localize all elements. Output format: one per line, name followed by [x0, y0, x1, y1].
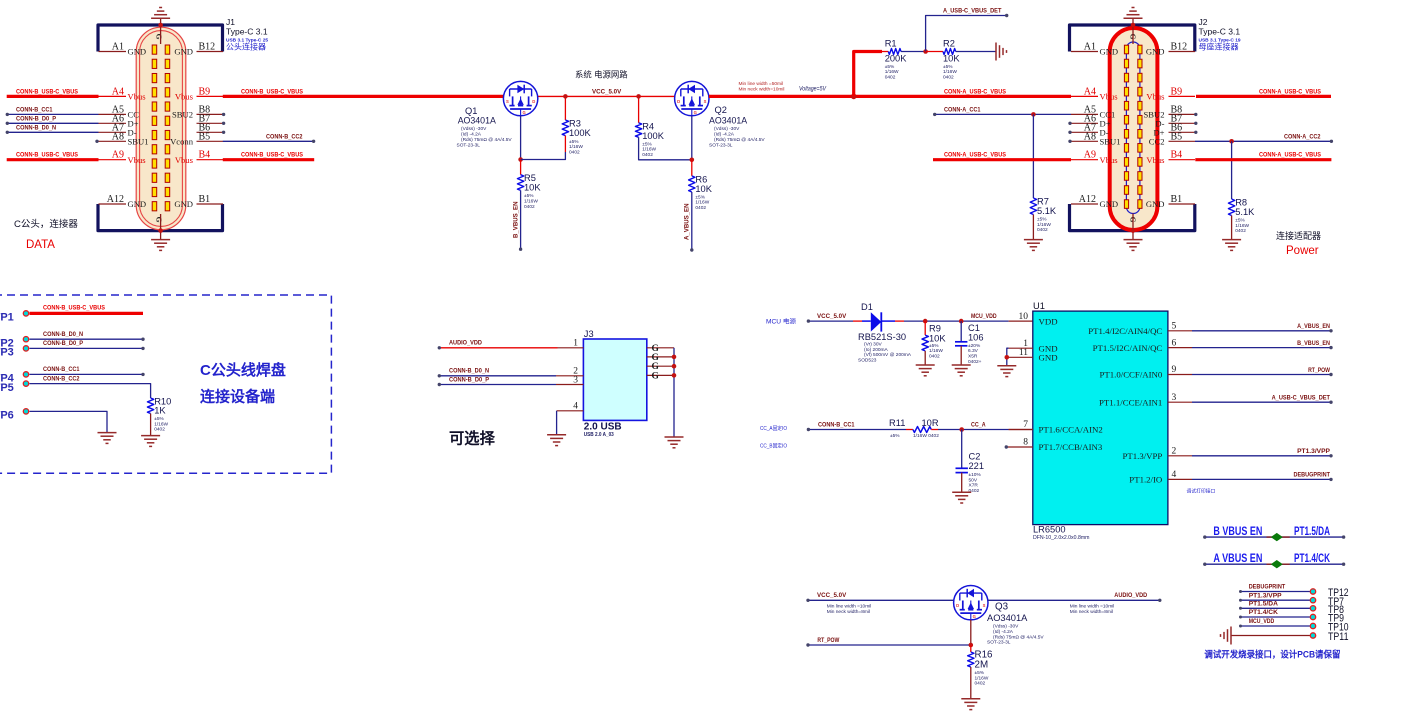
- wire TP2 CONN-B_D0_N: [30, 338, 144, 340]
- svg-text:J3: J3: [584, 329, 594, 339]
- junction Q2 gate node: [690, 158, 695, 163]
- svg-text:Voltage=5V: Voltage=5V: [799, 87, 827, 93]
- junction J3 G2: [672, 355, 677, 360]
- testpoint TP8: [1241, 607, 1311, 609]
- wire net RT_POW: [1192, 374, 1331, 376]
- svg-text:0402: 0402: [885, 74, 896, 80]
- svg-text:Vbus: Vbus: [128, 155, 147, 165]
- svg-text:AO3401A: AO3401A: [709, 116, 747, 126]
- svg-text:R1: R1: [885, 39, 897, 49]
- J2 pin A9: [1071, 159, 1098, 161]
- svg-text:(Id) -4.2A: (Id) -4.2A: [461, 132, 482, 138]
- svg-text:0402: 0402: [154, 427, 165, 433]
- svg-text:G: G: [694, 110, 697, 115]
- svg-text:R6: R6: [695, 174, 707, 184]
- svg-text:±5%: ±5%: [975, 670, 985, 676]
- svg-text:R3: R3: [569, 119, 581, 129]
- svg-text:PT1.5/DA: PT1.5/DA: [1294, 526, 1330, 538]
- wire net A_VBUS_EN: [691, 192, 693, 250]
- svg-text:USB 2.0 A_03: USB 2.0 A_03: [584, 432, 614, 438]
- wire net B_VBUS_EN: [520, 190, 522, 249]
- junction J1 bottom: [158, 228, 163, 233]
- svg-text:Vbus: Vbus: [1146, 92, 1165, 102]
- wire CONN-A_CC1: [935, 113, 1071, 115]
- svg-text:CONN-B_CC1: CONN-B_CC1: [16, 106, 53, 113]
- resistor R1: [888, 49, 901, 55]
- svg-text:R2: R2: [943, 39, 955, 49]
- wire TP3 CONN-B_D0_P: [30, 347, 144, 349]
- wire CONN-B_CC2: [223, 140, 314, 142]
- svg-text:R4: R4: [642, 121, 654, 131]
- wire A_USB-C_VBUS_DET: [926, 16, 1007, 52]
- U1 pin 6 PT1.5/I2C/AIN/QC: [1168, 347, 1192, 349]
- junction C1: [959, 319, 964, 324]
- svg-text:Min neck width=8mil: Min neck width=8mil: [827, 609, 870, 615]
- svg-text:SOD523: SOD523: [858, 358, 877, 364]
- svg-text:GND: GND: [128, 199, 147, 209]
- wire CONN-A_USB-C_VBUS A9: [933, 158, 1071, 161]
- transistor Q2: [675, 81, 709, 115]
- svg-text:Q3: Q3: [995, 602, 1009, 613]
- svg-text:A1: A1: [112, 42, 124, 53]
- svg-text:RB521S-30: RB521S-30: [858, 332, 906, 342]
- svg-text:A VBUS EN: A VBUS EN: [1213, 553, 1262, 565]
- U1 pin 11 GND: [1009, 356, 1033, 358]
- svg-text:CONN-A_CC2: CONN-A_CC2: [1284, 133, 1321, 140]
- svg-text:B_VBUS_EN: B_VBUS_EN: [513, 201, 520, 238]
- svg-text:±5%: ±5%: [1235, 218, 1245, 224]
- junction R9: [923, 319, 928, 324]
- wire join B_VBUS_EN PT1.5/DA: [1205, 536, 1344, 538]
- svg-text:TP6: TP6: [0, 410, 14, 422]
- transistor Q1: [503, 81, 537, 115]
- capacitor C2 lead: [961, 430, 963, 469]
- junction J1 top: [158, 23, 163, 28]
- wire VCC_5.0V to D1: [808, 320, 853, 322]
- svg-text:0402: 0402: [524, 204, 535, 210]
- junction J3 G3: [672, 364, 677, 369]
- svg-text:J1: J1: [226, 17, 235, 27]
- svg-text:GND: GND: [174, 47, 193, 57]
- svg-text:2.0 USB: 2.0 USB: [584, 422, 622, 433]
- svg-text:1/16W: 1/16W: [642, 147, 656, 153]
- wire RT_POW: [808, 644, 971, 646]
- wire J3 G bus down: [673, 348, 675, 437]
- U1 pin 4 PT1.2/IO: [1168, 478, 1192, 480]
- diode D1: [862, 320, 871, 322]
- svg-text:(Id) -4.2A: (Id) -4.2A: [714, 132, 735, 138]
- svg-text:RT_POW: RT_POW: [817, 637, 839, 644]
- svg-text:5.1K: 5.1K: [1235, 207, 1255, 217]
- testpoint TP11: [1231, 635, 1310, 637]
- svg-text:±5%: ±5%: [154, 416, 164, 422]
- J1 pin A4: [99, 95, 127, 97]
- resistor R4 top lead: [638, 96, 640, 122]
- J1 pin A8: [99, 140, 127, 142]
- svg-text:DEBUGPRINT: DEBUGPRINT: [1249, 584, 1286, 591]
- svg-text:±5%: ±5%: [929, 343, 939, 349]
- svg-text:C公头线焊盘: C公头线焊盘: [200, 361, 286, 379]
- svg-text:D: D: [956, 603, 959, 608]
- svg-text:±5%: ±5%: [943, 64, 953, 70]
- svg-text:GND: GND: [1100, 47, 1119, 57]
- svg-text:PT1.4/I2C/AIN4/QC: PT1.4/I2C/AIN4/QC: [1088, 326, 1162, 336]
- ground TP6: [98, 432, 117, 434]
- svg-text:DATA: DATA: [26, 239, 55, 251]
- svg-text:A_USB-C_VBUS_DET: A_USB-C_VBUS_DET: [1272, 395, 1331, 402]
- junction VCC R3: [563, 94, 568, 99]
- svg-text:B12: B12: [199, 42, 216, 53]
- svg-text:X7R: X7R: [969, 483, 979, 489]
- ground J2 top: [1124, 17, 1143, 19]
- svg-text:1/16W 0402: 1/16W 0402: [913, 433, 939, 439]
- svg-text:CC_A: CC_A: [971, 421, 986, 428]
- svg-text:A12: A12: [1079, 194, 1096, 205]
- wire J1 top ground: [160, 18, 162, 44]
- testpoint TP1: [23, 311, 28, 316]
- wire R11 to CC_A: [938, 429, 1009, 431]
- svg-text:CONN-A_USB-C_VBUS: CONN-A_USB-C_VBUS: [944, 152, 1006, 159]
- wire CONN-A_USB-C_VBUS B9 right: [1196, 95, 1331, 98]
- U1 pin 1 GND: [1009, 347, 1033, 349]
- wire J2 bottom ground: [1132, 214, 1134, 241]
- J1 pin B7: [197, 122, 224, 124]
- svg-text:1/16W: 1/16W: [569, 144, 583, 150]
- svg-text:CONN-B_D0_N: CONN-B_D0_N: [43, 331, 83, 338]
- capacitor C2: [956, 467, 968, 469]
- J2 pin A6: [1071, 122, 1098, 124]
- J2 unconnected pin dots: [1068, 122, 1071, 125]
- svg-text:J2: J2: [1199, 17, 1208, 27]
- svg-text:4: 4: [573, 402, 578, 412]
- ground U1: [997, 365, 1016, 367]
- svg-text:Vbus: Vbus: [1100, 92, 1119, 102]
- resistor R10: [147, 398, 153, 414]
- svg-text:0402: 0402: [929, 354, 940, 360]
- wire CONN-A_CC2: [1195, 140, 1331, 142]
- svg-text:DEBUGPRINT: DEBUGPRINT: [1294, 472, 1331, 479]
- ground TP11 rotated: [1230, 627, 1232, 645]
- U1 pin 9 PT1.0/CCF/AIN0: [1168, 374, 1192, 376]
- resistor R7: [1030, 198, 1036, 215]
- svg-text:PT1.5/DA: PT1.5/DA: [1249, 601, 1278, 608]
- svg-text:A4: A4: [1084, 86, 1096, 97]
- svg-text:AO3401A: AO3401A: [987, 613, 1028, 623]
- svg-text:Q1: Q1: [465, 106, 477, 116]
- dashed box C-plug pads: [0, 295, 331, 473]
- ground C2: [952, 491, 971, 493]
- svg-text:A_VBUS_EN: A_VBUS_EN: [684, 203, 691, 240]
- junction Q1 gate node: [518, 157, 523, 162]
- svg-text:连接设备端: 连接设备端: [200, 388, 275, 406]
- U1 pin 7 CCA: [1009, 429, 1033, 431]
- wire CC2 down to R8: [1231, 141, 1233, 199]
- junction Q3 gate R16: [969, 643, 974, 648]
- svg-text:GND: GND: [174, 199, 193, 209]
- svg-text:VCC_5.0V: VCC_5.0V: [817, 592, 847, 599]
- IC U1 body: [1033, 311, 1168, 524]
- svg-text:AO3401A: AO3401A: [458, 116, 496, 126]
- svg-text:U1: U1: [1033, 301, 1045, 311]
- svg-text:CC_A固定IO: CC_A固定IO: [760, 425, 787, 432]
- svg-text:PT1.3/VPP: PT1.3/VPP: [1249, 592, 1282, 599]
- svg-text:B VBUS EN: B VBUS EN: [1213, 526, 1262, 538]
- wire Q2 gate down: [691, 116, 693, 160]
- svg-text:(Vf) 500mV @ 200mA: (Vf) 500mV @ 200mA: [864, 352, 912, 358]
- svg-text:Min neck width=10mil: Min neck width=10mil: [739, 86, 785, 92]
- U1 pin 8 CCB: [1007, 446, 1033, 448]
- svg-text:CONN-B_CC1: CONN-B_CC1: [43, 366, 80, 373]
- resistor R5 top lead: [520, 160, 522, 175]
- svg-text:6: 6: [1172, 338, 1177, 348]
- junction CC2 R8: [1229, 139, 1234, 144]
- svg-text:Type-C 3.1: Type-C 3.1: [1199, 27, 1241, 37]
- svg-text:CONN-B_CC2: CONN-B_CC2: [266, 133, 303, 140]
- svg-text:C2: C2: [969, 451, 981, 461]
- svg-text:(Id) -4.2A: (Id) -4.2A: [993, 629, 1014, 635]
- J2 pin A12: [1071, 203, 1098, 205]
- J2 pin B8: [1169, 113, 1196, 115]
- J1 pin B9: [197, 95, 224, 97]
- svg-text:A12: A12: [107, 194, 124, 205]
- wire Q3 to AUDIO_VDD: [988, 599, 1160, 601]
- svg-text:DFN-10_2.0x2.0x0.8mm: DFN-10_2.0x2.0x0.8mm: [1033, 535, 1090, 541]
- svg-text:A_VBUS_EN: A_VBUS_EN: [1297, 323, 1330, 330]
- svg-text:1/16W: 1/16W: [154, 421, 168, 427]
- svg-text:G: G: [522, 110, 525, 115]
- connector J1 body: [136, 27, 186, 230]
- svg-text:调试开发烧录接口，设计PCB请保留: 调试开发烧录接口，设计PCB请保留: [1204, 649, 1340, 660]
- svg-text:MCU_VDD: MCU_VDD: [971, 313, 997, 320]
- svg-text:CONN-A_USB-C_VBUS: CONN-A_USB-C_VBUS: [944, 88, 1006, 95]
- svg-text:PT1.3/VPP: PT1.3/VPP: [1122, 451, 1162, 461]
- svg-text:C1: C1: [968, 323, 980, 333]
- resistor R8: [1228, 199, 1234, 216]
- J1 pin B8: [197, 113, 224, 115]
- J1 pin A12: [99, 203, 127, 205]
- svg-text:1/16W: 1/16W: [975, 675, 989, 681]
- svg-text:CONN-B_D0_P: CONN-B_D0_P: [43, 340, 83, 347]
- wire J2 top ground: [1132, 18, 1134, 44]
- svg-text:R11: R11: [889, 418, 905, 428]
- svg-text:0402: 0402: [695, 205, 706, 211]
- svg-text:Vbus: Vbus: [128, 92, 147, 102]
- svg-text:母座连接器: 母座连接器: [1199, 42, 1239, 52]
- resistor R11: [913, 427, 931, 433]
- J1 pin A7: [99, 131, 127, 133]
- svg-text:±10%: ±10%: [969, 472, 982, 478]
- svg-text:连接适配器: 连接适配器: [1276, 230, 1321, 241]
- svg-text:1/16W: 1/16W: [1235, 223, 1249, 229]
- svg-text:可选择: 可选择: [449, 430, 496, 448]
- J2 pin B12: [1169, 51, 1196, 53]
- svg-text:B4: B4: [1171, 150, 1183, 161]
- wire CONN-B_USB-C_VBUS B9 to Q1: [223, 95, 504, 98]
- svg-text:106: 106: [968, 333, 984, 343]
- svg-text:R7: R7: [1037, 197, 1049, 207]
- svg-text:A1: A1: [1084, 42, 1096, 53]
- J3 G pins: [647, 347, 674, 349]
- J2 pin B6: [1169, 131, 1196, 133]
- svg-text:Vbus: Vbus: [1146, 155, 1165, 165]
- U1 pin 2 PT1.3/VPP: [1168, 455, 1192, 457]
- svg-text:S: S: [506, 99, 509, 104]
- J2 pin A7: [1071, 131, 1098, 133]
- svg-text:Q2: Q2: [715, 105, 727, 115]
- connector J2 pads: [1124, 45, 1128, 54]
- svg-text:Min neck width=8mil: Min neck width=8mil: [1070, 609, 1113, 615]
- J1 pin A5: [99, 113, 127, 115]
- svg-text:±5%: ±5%: [1037, 217, 1047, 223]
- svg-text:0402: 0402: [975, 681, 986, 687]
- svg-text:B9: B9: [1171, 86, 1183, 97]
- svg-text:TP11: TP11: [1328, 631, 1349, 643]
- svg-text:SOT-23-3L: SOT-23-3L: [709, 142, 733, 148]
- svg-text:MCU_VDD: MCU_VDD: [1249, 618, 1275, 625]
- svg-text:±5%: ±5%: [885, 64, 895, 70]
- J1 pin A1: [99, 51, 127, 53]
- svg-text:AUDIO_VDD: AUDIO_VDD: [1114, 592, 1147, 599]
- ground R9: [916, 364, 935, 366]
- svg-text:Vbus: Vbus: [175, 92, 194, 102]
- svg-text:(Io) 200mA: (Io) 200mA: [864, 347, 889, 353]
- svg-text:4: 4: [1172, 470, 1177, 480]
- wire CONN-B_USB-C_VBUS A4: [7, 95, 99, 98]
- connector J2 bracket: [1070, 25, 1195, 52]
- svg-text:X5R: X5R: [968, 354, 978, 360]
- svg-text:TP3: TP3: [0, 347, 14, 359]
- svg-text:CONN-B_D0_P: CONN-B_D0_P: [16, 115, 56, 122]
- svg-text:10K: 10K: [524, 183, 541, 193]
- svg-text:1/16W: 1/16W: [524, 199, 538, 205]
- svg-text:2M: 2M: [975, 660, 989, 671]
- svg-text:Vbus: Vbus: [1100, 155, 1119, 165]
- svg-text:B12: B12: [1171, 42, 1188, 53]
- resistor R6: [689, 176, 695, 192]
- resistor R5: [517, 175, 523, 191]
- svg-text:SBU1: SBU1: [128, 137, 149, 147]
- svg-text:B5: B5: [1171, 131, 1183, 142]
- resistor R11 lead right: [931, 429, 938, 431]
- svg-text:A9: A9: [112, 150, 124, 161]
- wire net PT1.3/VPP: [1192, 455, 1331, 457]
- transistor Q3: [954, 586, 988, 620]
- resistor R3: [562, 120, 568, 136]
- junction J3 G4: [672, 373, 677, 378]
- svg-text:Vbus: Vbus: [175, 155, 194, 165]
- net tie B_VBUS_EN: [1271, 533, 1283, 541]
- svg-text:GND: GND: [128, 47, 147, 57]
- testpoint TP3: [23, 346, 28, 351]
- testpoint TP7: [1241, 599, 1311, 601]
- ground R2 rotated: [995, 43, 997, 61]
- J3 pin 2 wire CONN-B_D0_N: [439, 375, 556, 377]
- svg-text:GND: GND: [1100, 199, 1119, 209]
- junction R1 R2: [923, 49, 928, 54]
- svg-text:Min line width =10mil: Min line width =10mil: [1070, 604, 1115, 610]
- svg-text:100K: 100K: [642, 131, 665, 141]
- wire CONN-B_USB-C_VBUS B4: [223, 158, 314, 161]
- svg-text:221: 221: [969, 461, 985, 471]
- wire J1 bottom ground: [160, 214, 162, 240]
- wire D1 to U1 VDD: [895, 320, 904, 322]
- svg-text:G: G: [155, 217, 164, 223]
- ground J1 bottom: [151, 239, 170, 241]
- svg-text:1K: 1K: [154, 406, 166, 416]
- wire CONN-A_USB-C_VBUS B4 right: [1195, 158, 1331, 161]
- svg-text:100K: 100K: [569, 128, 592, 138]
- junction CC1 R7: [1031, 112, 1036, 117]
- testpoint TP4: [23, 372, 28, 377]
- svg-text:D: D: [532, 99, 535, 104]
- resistor R9 lead: [924, 321, 926, 335]
- testpoint TP2: [23, 337, 28, 342]
- svg-text:5.1K: 5.1K: [1037, 206, 1057, 216]
- svg-text:G: G: [652, 371, 660, 381]
- svg-text:7: 7: [1023, 420, 1028, 430]
- resistor R6 top lead: [691, 160, 693, 176]
- svg-text:RT_POW: RT_POW: [1308, 367, 1330, 374]
- wire CONN-B_D0_N: [7, 131, 98, 133]
- svg-text:CONN-B_USB-C_VBUS: CONN-B_USB-C_VBUS: [241, 152, 303, 159]
- J1 unconnected pin dots: [95, 140, 98, 143]
- svg-text:GND: GND: [1146, 47, 1165, 57]
- svg-text:SBU1: SBU1: [1100, 137, 1121, 147]
- svg-text:Min line width =10mil: Min line width =10mil: [827, 604, 872, 610]
- svg-text:CONN-B_USB-C_VBUS: CONN-B_USB-C_VBUS: [43, 305, 105, 312]
- ground R10: [141, 435, 160, 437]
- svg-text:CONN-A_USB-C_VBUS: CONN-A_USB-C_VBUS: [1259, 152, 1321, 159]
- resistor R2 lead left: [926, 51, 943, 53]
- ground J2 bottom: [1124, 239, 1143, 241]
- svg-text:0402+: 0402+: [968, 359, 982, 365]
- svg-text:(Rds) 75mΩ @ 4A/4.5V: (Rds) 75mΩ @ 4A/4.5V: [993, 635, 1044, 641]
- svg-text:0402: 0402: [642, 152, 653, 158]
- svg-text:A_USB-C_VBUS_DET: A_USB-C_VBUS_DET: [943, 7, 1002, 14]
- svg-text:10R: 10R: [922, 418, 939, 428]
- svg-text:A8: A8: [112, 131, 124, 142]
- svg-text:LR6500: LR6500: [1033, 525, 1066, 535]
- wire TP6 to ground: [30, 411, 108, 432]
- wire CONN-B_USB-C_VBUS A9: [7, 158, 99, 161]
- testpoint TP5: [23, 381, 28, 386]
- svg-text:TP1: TP1: [0, 312, 14, 324]
- svg-text:CONN-B_USB-C_VBUS: CONN-B_USB-C_VBUS: [16, 152, 78, 159]
- svg-text:(Vdss) -30V: (Vdss) -30V: [993, 624, 1019, 630]
- svg-text:0402: 0402: [969, 488, 980, 494]
- svg-text:A4: A4: [112, 86, 124, 97]
- svg-text:R8: R8: [1235, 198, 1247, 208]
- J1 pin B4: [197, 159, 224, 161]
- svg-text:2: 2: [1172, 447, 1177, 457]
- svg-text:GND: GND: [1039, 353, 1058, 363]
- J1 pin B6: [197, 131, 224, 133]
- testpoint TP6: [23, 409, 28, 414]
- svg-text:0402: 0402: [1235, 228, 1246, 234]
- svg-text:CONN-B_D0_N: CONN-B_D0_N: [16, 124, 56, 131]
- testpoint TP10: [1241, 625, 1311, 627]
- svg-text:0402: 0402: [569, 149, 580, 155]
- wire CONN-A_USB-C_VBUS Q2 to J2: [709, 95, 1071, 98]
- svg-text:9: 9: [1172, 365, 1177, 375]
- connector J2 slot: [1126, 42, 1140, 214]
- svg-text:8: 8: [1023, 438, 1028, 448]
- svg-text:B5: B5: [199, 131, 211, 142]
- svg-text:CONN-B_CC2: CONN-B_CC2: [43, 375, 80, 382]
- svg-text:A8: A8: [1084, 131, 1096, 142]
- svg-text:PT1.1/CCE/AIN1: PT1.1/CCE/AIN1: [1099, 397, 1162, 407]
- svg-text:10K: 10K: [929, 333, 946, 343]
